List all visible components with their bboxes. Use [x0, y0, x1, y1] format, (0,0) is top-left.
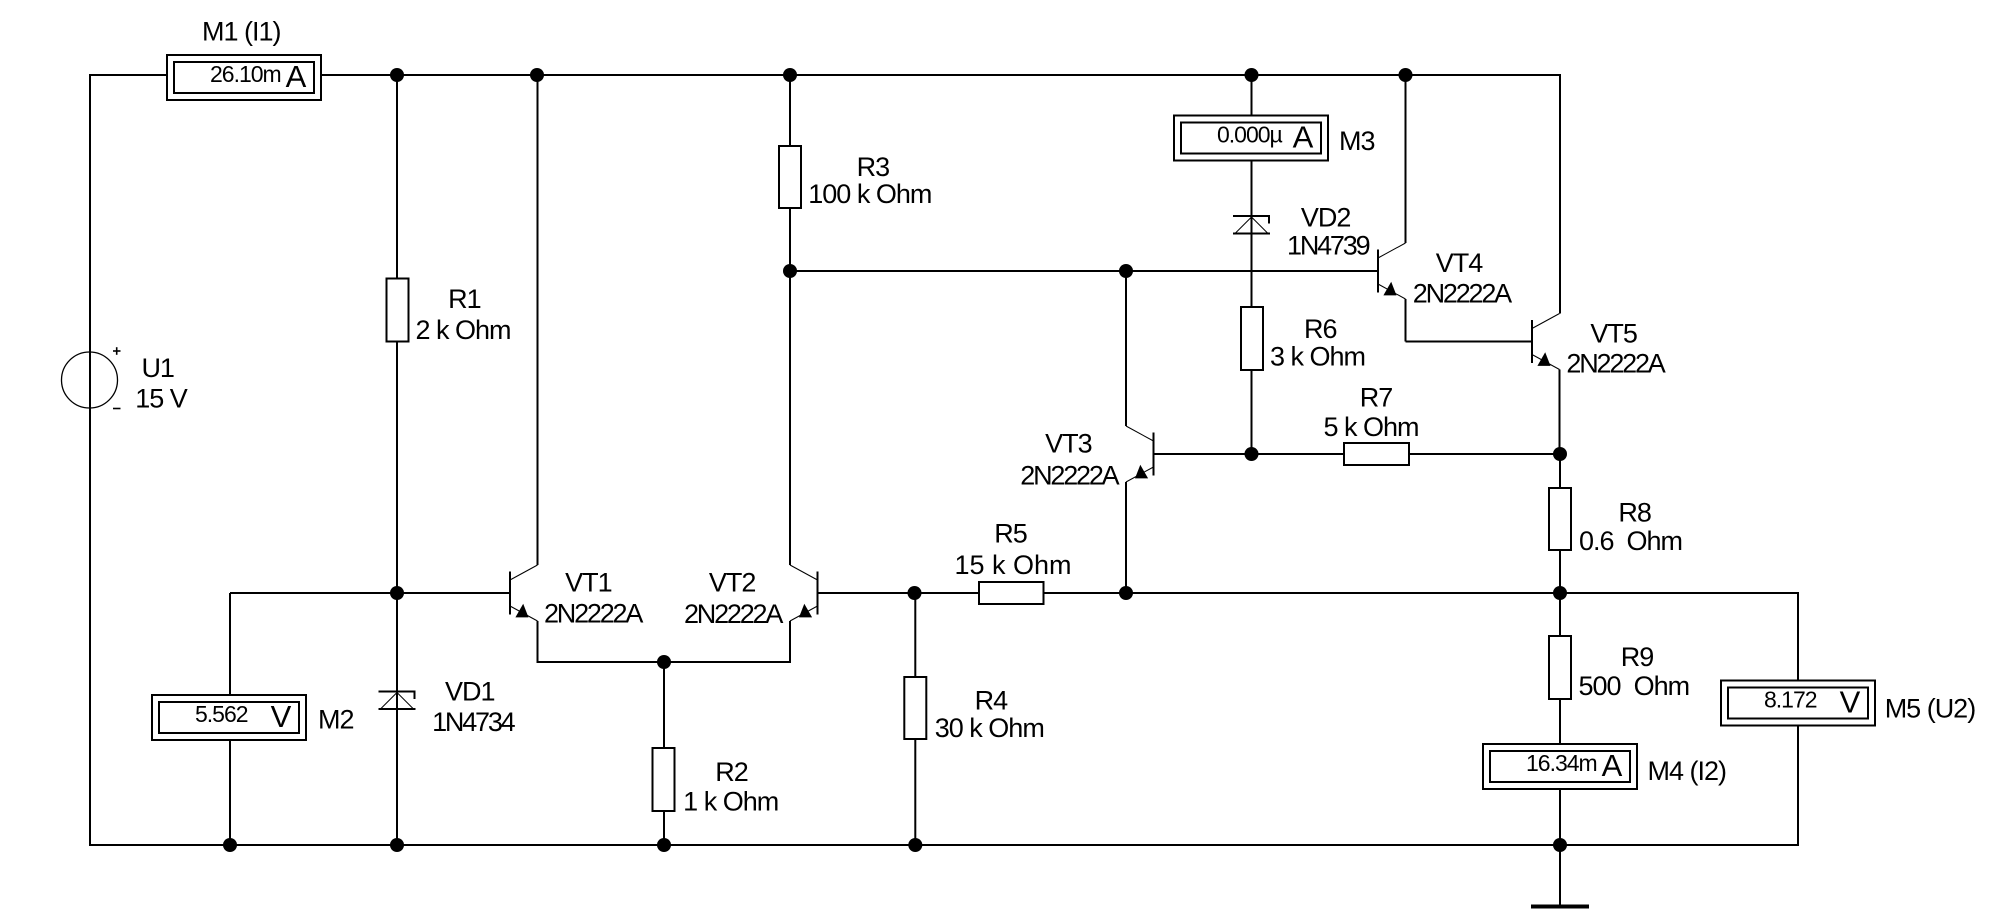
ammeter M4: [1483, 744, 1637, 789]
wire M2 branch down: [229, 593, 231, 695]
svg-text:8.172: 8.172: [1764, 687, 1817, 713]
wire R2 bottom: [663, 811, 665, 845]
wire VT3 base to R7: [1154, 453, 1345, 455]
svg-text:1N4739: 1N4739: [1287, 231, 1370, 261]
svg-text:R1: R1: [448, 284, 481, 314]
svg-text:VD2: VD2: [1301, 203, 1351, 233]
wire R7 to node D: [1409, 453, 1560, 455]
svg-text:0.000µ: 0.000µ: [1217, 122, 1283, 148]
junction emitter join / R2: [657, 655, 671, 669]
junction bottom rail / R4: [908, 838, 922, 852]
svg-text:M1 (I1): M1 (I1): [202, 17, 281, 47]
svg-text:VT2: VT2: [709, 568, 756, 598]
svg-text:M3: M3: [1339, 126, 1375, 156]
svg-text:R9: R9: [1621, 642, 1654, 672]
resistor R9: [1549, 636, 1571, 699]
zener diode VD2: [1233, 215, 1270, 217]
junction node C / R6-R7: [1245, 447, 1259, 461]
svg-text:2N2222A: 2N2222A: [1566, 349, 1665, 379]
svg-text:5 k Ohm: 5 k Ohm: [1323, 412, 1418, 442]
wire VT4 emitter down: [1405, 299, 1407, 342]
svg-text:R3: R3: [857, 152, 890, 182]
junction base bus / R1-VD1: [390, 586, 404, 600]
svg-text:U1: U1: [141, 353, 174, 383]
wire M2 to bottom rail: [229, 740, 231, 845]
voltmeter M2: [152, 695, 306, 740]
junction top rail / R3: [783, 68, 797, 82]
svg-text:R5: R5: [994, 519, 1027, 549]
wire VT4 emitter to VT5 base: [1406, 341, 1533, 343]
wire M5 to bottom rail: [1797, 725, 1799, 845]
wire M3 drop from top rail: [1251, 75, 1253, 116]
wire VT5 collector drop from top rail: [1559, 74, 1561, 314]
wire R9 to M4: [1559, 699, 1561, 744]
wire R2 top: [663, 662, 665, 748]
svg-text:R7: R7: [1360, 383, 1393, 413]
ammeter M1: [167, 55, 321, 100]
wire R3 bottom to node B: [789, 208, 791, 271]
junction node B / VT3 collector: [1119, 264, 1133, 278]
wire top rail (M1 to VT5 collector corner): [321, 74, 1560, 76]
wire VT3 collector up: [1125, 271, 1127, 426]
wire R5 to VT3 emitter node: [1043, 592, 1126, 594]
junction node D / VT5 emitter: [1553, 447, 1567, 461]
svg-text:R8: R8: [1618, 498, 1651, 528]
wire top rail left (U1 to M1): [90, 74, 167, 76]
wire ground lead: [1559, 845, 1561, 905]
wire M5 branch down to meter: [1797, 592, 1799, 681]
svg-text:V: V: [271, 699, 292, 734]
resistor R1: [387, 279, 409, 342]
svg-text:3 k Ohm: 3 k Ohm: [1270, 342, 1365, 372]
svg-text:M5 (U2): M5 (U2): [1885, 694, 1976, 724]
svg-text:15 k Ohm: 15 k Ohm: [954, 550, 1071, 580]
junction top rail / VT4 collector: [1399, 68, 1413, 82]
wire VT2 collector up: [789, 271, 791, 565]
svg-text:A: A: [1602, 748, 1623, 783]
wire VT1 collector up: [537, 75, 539, 565]
svg-text:5.562: 5.562: [195, 701, 248, 727]
wire VT2 emitter down: [789, 621, 791, 662]
transistor VT1: [509, 572, 511, 615]
svg-text:2N2222A: 2N2222A: [544, 599, 643, 629]
junction bottom rail / M2: [223, 838, 237, 852]
junction top rail / R1: [390, 68, 404, 82]
resistor R3: [779, 146, 801, 208]
wire R4 bottom: [914, 739, 916, 845]
resistor R8: [1549, 488, 1571, 550]
wire R4 top: [914, 593, 916, 677]
voltage source U1: [62, 352, 118, 408]
ammeter M3: [1174, 116, 1328, 161]
wire node D to R8: [1559, 454, 1561, 488]
ground: [1531, 905, 1589, 909]
wire bottom rail: [89, 844, 1799, 846]
junction output bus / VT3 emitter: [1119, 586, 1133, 600]
wire R6 to node C: [1251, 370, 1253, 454]
junction node B / R3-VT2: [783, 264, 797, 278]
svg-text:2N2222A: 2N2222A: [1020, 461, 1119, 491]
wire R9 top: [1559, 593, 1561, 636]
wire left rail (U1 branch): [89, 74, 91, 846]
svg-text:R6: R6: [1304, 314, 1337, 344]
svg-text:2N2222A: 2N2222A: [684, 599, 783, 629]
svg-text:15 V: 15 V: [135, 384, 188, 414]
svg-text:0.6 Ohm: 0.6 Ohm: [1579, 526, 1682, 556]
wire node B bus (to VT4 base): [790, 270, 1378, 272]
svg-text:2 k Ohm: 2 k Ohm: [415, 315, 510, 345]
resistor R5: [979, 582, 1044, 604]
svg-text:M4 (I2): M4 (I2): [1648, 756, 1727, 786]
resistor R7: [1344, 443, 1409, 465]
resistor R4: [904, 677, 926, 739]
svg-text:VD1: VD1: [445, 677, 495, 707]
svg-text:26.10m: 26.10m: [210, 61, 281, 87]
wire VT3 emitter down: [1125, 482, 1127, 593]
svg-text:500 Ohm: 500 Ohm: [1579, 671, 1690, 701]
svg-text:1 k Ohm: 1 k Ohm: [683, 787, 778, 817]
wire M3 through VD2 to R6: [1251, 161, 1253, 308]
junction bottom rail / VD1: [390, 838, 404, 852]
wire R1 branch top: [396, 75, 398, 279]
voltmeter M5: [1721, 681, 1875, 726]
svg-text:VT5: VT5: [1590, 319, 1637, 349]
svg-text:A: A: [1293, 120, 1314, 155]
svg-text:A: A: [286, 59, 307, 94]
svg-text:R2: R2: [715, 757, 748, 787]
wire node A through VD1 to bottom rail: [396, 593, 398, 845]
junction output bus / R4: [908, 586, 922, 600]
resistor R6: [1241, 307, 1263, 370]
svg-text:30 k Ohm: 30 k Ohm: [935, 713, 1044, 743]
junction top rail / M3: [1245, 68, 1259, 82]
junction bottom rail / ground: [1553, 838, 1567, 852]
resistor R2: [653, 748, 675, 811]
svg-text:VT1: VT1: [565, 568, 612, 598]
transistor VT3: [1153, 433, 1155, 476]
svg-text:16.34m: 16.34m: [1526, 750, 1597, 776]
wire VT4 collector up: [1405, 75, 1407, 243]
svg-text:100 k Ohm: 100 k Ohm: [808, 179, 931, 209]
zener diode VD1: [379, 691, 416, 693]
svg-text:R4: R4: [975, 686, 1008, 716]
wire output bus (VT2 base to R5): [818, 592, 980, 594]
wire R3 top: [789, 75, 791, 146]
svg-text:M2: M2: [318, 705, 354, 735]
wire node E to M5 branch corner: [1560, 592, 1799, 594]
svg-text:2N2222A: 2N2222A: [1413, 279, 1512, 309]
transistor VT2: [817, 572, 819, 615]
transistor VT5: [1531, 320, 1533, 363]
wire base bus left (M2 branch to VT1 base): [230, 592, 510, 594]
wire emitter join (VT1-VT2): [537, 661, 792, 663]
wire R8 to node E: [1559, 550, 1561, 593]
junction bottom rail / R2: [657, 838, 671, 852]
transistor VT4: [1377, 250, 1379, 293]
wire R1 to node A: [396, 342, 398, 594]
junction top rail / VT1 collector: [530, 68, 544, 82]
wire VT5 emitter down to node D: [1559, 370, 1561, 455]
wire VT3 emitter node to node E: [1126, 592, 1560, 594]
svg-text:V: V: [1840, 685, 1861, 720]
svg-text:1N4734: 1N4734: [432, 707, 516, 737]
svg-text:VT4: VT4: [1436, 248, 1484, 278]
wire VT1 emitter down: [537, 621, 539, 662]
svg-text:VT3: VT3: [1045, 429, 1092, 459]
junction node E / R8-R9: [1553, 586, 1567, 600]
wire M4 to bottom rail: [1559, 789, 1561, 845]
